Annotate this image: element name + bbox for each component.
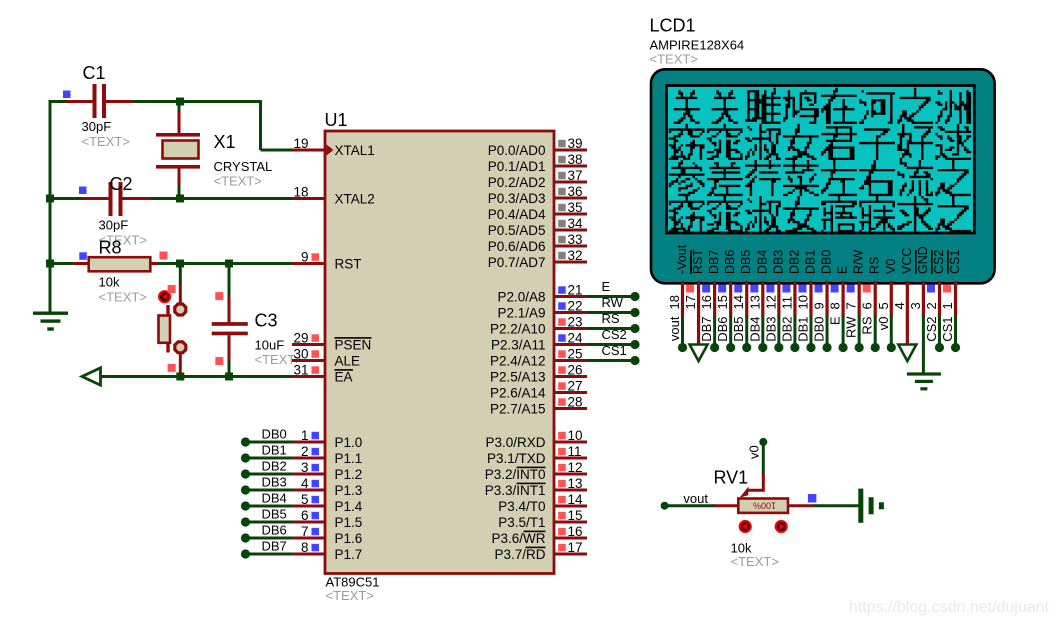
svg-text:1: 1 [940,302,955,309]
svg-text:13: 13 [747,295,762,309]
svg-text:12: 12 [763,295,778,309]
svg-text:10: 10 [568,428,583,443]
svg-text:P1.2: P1.2 [335,467,363,482]
svg-text:4: 4 [892,302,907,309]
svg-text:22: 22 [568,299,583,314]
svg-text:P3.3/INT1: P3.3/INT1 [485,483,546,498]
op-amp U1 body (AT89C51 chip) [325,131,554,574]
svg-text:8: 8 [828,302,843,309]
svg-text:DB2: DB2 [779,317,794,342]
svg-text:P0.3/AD3: P0.3/AD3 [488,191,546,206]
svg-text:XTAL2: XTAL2 [335,192,375,207]
svg-text:23: 23 [568,315,583,330]
svg-text:-Vout: -Vout [675,244,689,274]
svg-text:P3.6/WR: P3.6/WR [491,531,545,546]
node junction crystal bottom [176,195,184,203]
svg-text:RS: RS [860,316,875,334]
svg-text:9: 9 [301,250,309,265]
svg-text:10: 10 [795,295,810,309]
svg-text:10uF: 10uF [255,338,285,353]
svg-text:RW: RW [602,295,624,310]
svg-text:ALE: ALE [335,354,361,369]
svg-text:E: E [836,266,850,274]
svg-text:P1.0: P1.0 [335,435,363,450]
U1 right pin marker squares [558,140,566,148]
svg-text:P2.0/A8: P2.0/A8 [497,290,545,305]
crystal X1 [178,102,181,114]
clock symbol XTAL1 [327,145,334,156]
node junction rail R8 [46,260,54,268]
svg-text:3: 3 [908,302,923,309]
svg-text:P0.7/AD7: P0.7/AD7 [488,255,546,270]
svg-text:28: 28 [568,395,583,410]
svg-text:RS: RS [868,257,882,274]
svg-text:19: 19 [293,136,308,151]
svg-text:RST: RST [335,257,362,272]
svg-text:7: 7 [844,302,859,309]
svg-text:P1.3: P1.3 [335,483,363,498]
wires E RW RS CS2 CS1 [587,295,635,298]
svg-text:DB7: DB7 [699,317,714,342]
svg-text:11: 11 [568,444,582,459]
svg-text:DB0: DB0 [262,427,287,442]
svg-text:39: 39 [568,136,583,151]
svg-text:DB2: DB2 [262,459,287,474]
svg-text:U1: U1 [325,110,348,130]
svg-text:P0.4/AD4: P0.4/AD4 [488,207,546,222]
svg-text:v0: v0 [747,445,762,459]
svg-text:P3.5/T1: P3.5/T1 [498,515,545,530]
LCD1 screen [667,86,975,234]
svg-text:7: 7 [301,524,309,539]
node junction C3 top [225,260,233,268]
svg-text:14: 14 [568,492,584,507]
terminal arrow VCC [906,316,909,345]
svg-text:12: 12 [568,460,583,475]
svg-text:P1.4: P1.4 [335,499,363,514]
svg-text:P0.2/AD2: P0.2/AD2 [488,175,546,190]
svg-text:CS2: CS2 [924,317,939,342]
svg-text:RST: RST [691,249,705,274]
svg-text:P3.7/RD: P3.7/RD [494,547,545,562]
svg-text:P0.5/AD5: P0.5/AD5 [488,223,546,238]
LCD1 screen chinese text [669,88,971,232]
svg-text:P2.4/A12: P2.4/A12 [490,354,546,369]
svg-text:RS: RS [602,311,620,326]
ground LCD GND pin [922,316,925,374]
wire EA row [101,375,294,378]
svg-text:8: 8 [301,540,309,555]
svg-text:P3.0/RXD: P3.0/RXD [485,435,545,450]
LCD1 net wires with terminals [681,316,684,348]
wire RV1 to ground [814,504,860,507]
svg-text:35: 35 [568,200,583,215]
svg-text:5: 5 [301,492,309,507]
svg-text:DB3: DB3 [262,475,287,490]
svg-text:P2.2/A10: P2.2/A10 [490,322,546,337]
svg-text:P0.1/AD1: P0.1/AD1 [488,159,546,174]
svg-text:P1.7: P1.7 [335,547,363,562]
terminal v0 [759,438,767,446]
svg-text:15: 15 [715,295,730,309]
svg-text:2: 2 [301,444,309,459]
svg-text:EA: EA [335,370,353,385]
svg-text:16: 16 [568,524,583,539]
svg-text:10k: 10k [99,275,120,290]
svg-text:https://blog.csdn.net/dujuant: https://blog.csdn.net/dujuant [849,599,1050,616]
svg-text:CS1: CS1 [940,317,955,342]
wire button vertical [179,264,182,286]
svg-text:<TEXT>: <TEXT> [82,134,130,149]
svg-text:11: 11 [779,296,794,310]
marker RV1 [808,494,817,503]
svg-text:13: 13 [568,476,583,491]
svg-text:AMPIRE128X64: AMPIRE128X64 [650,38,745,53]
svg-text:vout: vout [683,491,708,506]
svg-text:33: 33 [568,232,583,247]
wires DB0-DB7 [241,437,250,446]
svg-text:32: 32 [568,248,583,263]
svg-text:P0.0/AD0: P0.0/AD0 [488,143,546,158]
capacitor C1 [66,100,93,103]
svg-text:15: 15 [568,508,583,523]
wire R8 row left [49,262,74,265]
svg-text:P2.5/A13: P2.5/A13 [490,370,546,385]
LCD1 body [651,69,995,283]
svg-text:DB0: DB0 [812,317,827,342]
push-button RESET [179,284,182,304]
svg-text:31: 31 [293,363,308,378]
svg-text:v0: v0 [876,317,891,331]
svg-text:CS2: CS2 [602,327,627,342]
svg-text:P2.1/A9: P2.1/A9 [497,306,545,321]
svg-text:V0: V0 [884,259,898,274]
U1 left pin marker squares [312,253,320,260]
svg-text:LCD1: LCD1 [650,16,696,36]
svg-text:29: 29 [293,331,308,346]
svg-text:P2.6/A14: P2.6/A14 [490,386,546,401]
svg-text:18: 18 [293,185,308,200]
svg-text:DB3: DB3 [763,317,778,342]
svg-text:DB7: DB7 [707,250,721,274]
svg-text:DB5: DB5 [262,507,287,522]
wire v0 down [762,444,765,474]
LCD1 pin marker squares [686,285,694,293]
resistor R8 [73,262,89,265]
node junction button bottom [176,373,184,381]
svg-text:30pF: 30pF [82,119,112,134]
U1 left pin stubs [292,149,325,152]
svg-text:X1: X1 [214,132,236,152]
svg-text:P0.6/AD6: P0.6/AD6 [488,239,546,254]
svg-text:P3.4/T0: P3.4/T0 [498,499,545,514]
capacitor C2 [82,197,109,200]
wire C2 to XTAL2 [151,197,294,200]
terminal vout [661,502,669,510]
svg-text:P1.1: P1.1 [335,451,363,466]
svg-text:DB6: DB6 [715,317,730,342]
svg-text:XTAL1: XTAL1 [335,143,375,158]
svg-text:CS2: CS2 [932,250,946,274]
svg-text:<TEXT>: <TEXT> [731,554,779,569]
svg-text:14: 14 [731,295,746,309]
svg-text:DB3: DB3 [771,250,785,274]
svg-text:VCC: VCC [900,248,914,274]
ground right rotated [858,489,863,523]
svg-text:R/W: R/W [852,250,866,275]
svg-text:17: 17 [568,540,583,555]
svg-text:DB1: DB1 [795,317,810,342]
svg-text:<TEXT>: <TEXT> [99,290,147,305]
wire vout [665,504,715,507]
svg-text:DB4: DB4 [747,317,762,342]
wire R8 to RST [158,262,293,265]
svg-text:DB1: DB1 [262,443,287,458]
svg-text:CS1: CS1 [948,250,962,274]
svg-text:100%: 100% [753,501,776,511]
svg-text:36: 36 [568,184,583,199]
svg-text:24: 24 [568,331,584,346]
wire left rail [49,100,52,314]
svg-text:DB7: DB7 [262,539,287,554]
svg-text:R8: R8 [99,238,122,258]
node junction rail C2 [46,195,54,203]
svg-text:P3.1/TXD: P3.1/TXD [487,451,546,466]
svg-text:RV1: RV1 [714,468,749,488]
svg-text:2: 2 [924,302,939,309]
svg-text:DB5: DB5 [739,250,753,274]
svg-text:5: 5 [876,302,891,309]
terminal arrow RST [697,316,700,345]
svg-text:<TEXT>: <TEXT> [214,174,262,189]
svg-text:<TEXT>: <TEXT> [650,52,698,67]
svg-text:E: E [602,279,611,294]
svg-text:21: 21 [568,283,583,298]
svg-text:C3: C3 [255,311,278,331]
svg-text:9: 9 [812,302,827,309]
svg-text:6: 6 [860,302,875,309]
wire C2 row left [49,197,83,200]
U1 right pin stubs [554,149,587,152]
svg-text:25: 25 [568,347,583,362]
node junction button top [176,260,184,268]
svg-text:6: 6 [301,508,309,523]
wire corner to XTAL1 [259,100,262,150]
svg-text:DB0: DB0 [820,250,834,274]
svg-text:E: E [828,316,843,325]
svg-text:CRYSTAL: CRYSTAL [214,159,273,174]
svg-text:DB5: DB5 [731,317,746,342]
svg-text:P1.5: P1.5 [335,515,363,530]
terminal arrow EA wire [82,368,101,385]
svg-text:PSEN: PSEN [335,338,372,353]
svg-text:vout: vout [667,316,682,341]
svg-text:DB2: DB2 [787,250,801,274]
svg-text:38: 38 [568,152,583,167]
wire C1 to corner [133,100,263,103]
LCD1 pin stubs [681,281,684,317]
svg-text:30: 30 [293,347,308,362]
svg-text:P3.2/INT0: P3.2/INT0 [485,467,546,482]
svg-text:30pF: 30pF [99,218,129,233]
svg-text:P1.6: P1.6 [335,531,363,546]
svg-text:DB1: DB1 [803,250,817,274]
svg-text:CS1: CS1 [602,343,627,358]
svg-text:1: 1 [301,428,309,443]
node junction C3 bottom [225,373,233,381]
capacitor C3 [228,264,231,297]
potentiometer RV1 [747,473,764,490]
node junction crystal top [176,98,184,106]
svg-text:P2.3/A11: P2.3/A11 [491,338,546,353]
svg-text:3: 3 [301,460,309,475]
svg-text:DB4: DB4 [262,491,287,506]
svg-text:16: 16 [699,295,714,309]
svg-text:37: 37 [568,168,583,183]
svg-text:P2.7/A15: P2.7/A15 [490,402,546,417]
svg-text:C2: C2 [110,174,133,194]
RV1 adjust buttons [740,521,751,532]
svg-text:DB6: DB6 [723,250,737,274]
svg-text:DB4: DB4 [755,250,769,274]
wire C1 row left [49,100,67,103]
svg-text:26: 26 [568,363,583,378]
svg-text:4: 4 [301,476,309,491]
svg-text:18: 18 [667,295,682,309]
svg-text:DB6: DB6 [262,523,287,538]
svg-text:C1: C1 [83,63,106,83]
svg-text:<TEXT>: <TEXT> [326,588,374,603]
svg-text:17: 17 [683,295,698,309]
svg-text:RW: RW [844,316,859,338]
svg-text:GND: GND [916,246,930,274]
ground left [49,307,52,314]
svg-text:34: 34 [568,216,584,231]
svg-text:27: 27 [568,379,583,394]
